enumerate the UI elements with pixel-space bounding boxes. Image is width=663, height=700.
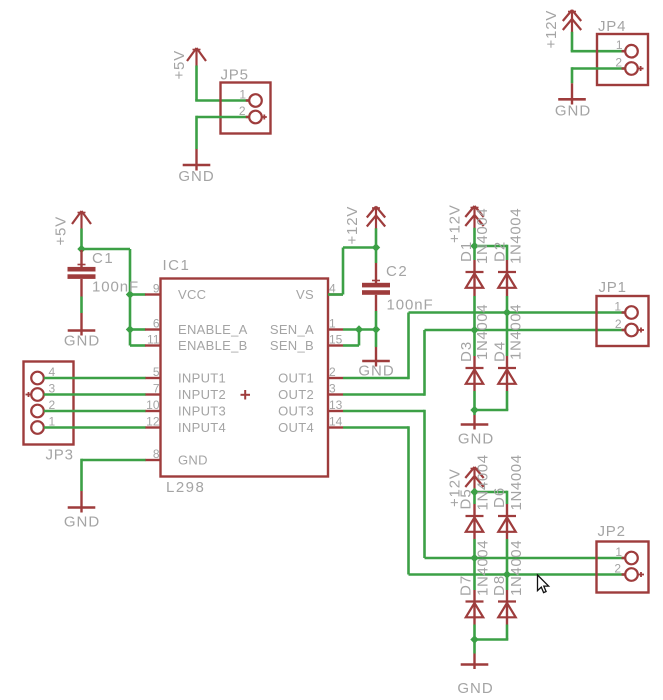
JP4 origin cross — [638, 66, 644, 71]
svg-text:2: 2 — [615, 317, 622, 331]
IC1 pin 2 stub — [328, 377, 343, 379]
diode D6 — [498, 516, 516, 533]
JP3 pin 1 circle — [31, 421, 44, 434]
JP2 pin 1 circle — [625, 552, 638, 565]
IC1 pin 5 stub — [145, 377, 161, 379]
node VCC pin 9 junction — [126, 290, 134, 298]
svg-text:11: 11 — [147, 333, 160, 347]
JP5 pin 1 circle — [249, 94, 262, 107]
wire D2 to OUT1 node — [506, 288, 508, 356]
GND symbol (C1) — [68, 313, 96, 336]
IC1 pin 4 stub — [328, 293, 343, 295]
mouse cursor — [538, 575, 549, 593]
node SEN_A/C2 junction — [372, 325, 380, 333]
wire +12V to node (diodes 1) — [473, 228, 476, 246]
svg-text:12: 12 — [146, 415, 160, 429]
wire D5 to OUT3 node — [473, 532, 475, 590]
svg-text:JP2: JP2 — [598, 523, 626, 540]
svg-text:+12V: +12V — [543, 10, 560, 49]
IC1 pin 15 stub — [328, 344, 343, 346]
svg-text:OUT4: OUT4 — [278, 420, 314, 435]
svg-text:9: 9 — [153, 282, 160, 296]
wire +12V to JP4 pin 1 — [571, 32, 626, 51]
JP3 pin 3 circle — [31, 388, 44, 401]
diode D4 — [498, 368, 516, 385]
IC1 pin 9 stub — [145, 293, 161, 295]
svg-text:JP5: JP5 — [221, 67, 249, 84]
wire OUT4 to JP2 pin 2 — [343, 426, 625, 574]
svg-text:1: 1 — [239, 88, 246, 102]
node VCC junction at C1 — [77, 245, 85, 253]
svg-text:D2: D2 — [492, 241, 509, 262]
svg-text:1N4004: 1N4004 — [474, 304, 491, 360]
wire D1 to OUT2 node — [473, 288, 475, 356]
svg-text:7: 7 — [153, 382, 160, 396]
wire JP3 pin 3 to IC — [44, 393, 146, 396]
wire D1 top lead — [473, 246, 476, 272]
svg-text:1N4004: 1N4004 — [508, 540, 525, 596]
JP2 origin cross — [638, 572, 644, 577]
svg-text:14: 14 — [329, 415, 343, 429]
node GND diodes 1 — [470, 406, 478, 414]
node OUT3 diode junction — [470, 554, 478, 562]
GND symbol (JP4) — [558, 83, 586, 104]
svg-text:INPUT3: INPUT3 — [178, 404, 226, 419]
wire +5V down to node — [80, 229, 83, 250]
IC1 pin 11 stub — [145, 344, 161, 346]
power +12V symbol (JP4 net) — [563, 10, 581, 32]
node ENABLE_A junction — [126, 325, 134, 333]
svg-text:OUT1: OUT1 — [278, 371, 314, 386]
wire SEN_B riser — [343, 330, 359, 346]
JP4 pin 1 circle — [625, 45, 638, 58]
JP5 pin 2 lead nub — [246, 116, 250, 118]
JP3 origin cross — [26, 392, 32, 397]
svg-text:+12V: +12V — [447, 204, 464, 243]
wire node to VCC rail — [82, 249, 131, 346]
GND symbol (JP5) — [183, 149, 211, 171]
svg-text:100nF: 100nF — [387, 297, 434, 314]
wire OUT2 to JP1 pin 2 — [343, 330, 625, 396]
svg-text:3: 3 — [329, 382, 336, 396]
svg-text:GND: GND — [64, 333, 100, 350]
JP2 pin 2 circle — [625, 568, 638, 581]
svg-text:1N4004: 1N4004 — [475, 454, 492, 510]
IC origin cross — [241, 390, 251, 400]
wire D8 top lead — [506, 590, 508, 602]
svg-text:13: 13 — [329, 398, 343, 412]
svg-text:D8: D8 — [491, 575, 508, 596]
node OUT2 diode junction — [470, 326, 478, 334]
op-amp U1 IC1 L298 body — [161, 279, 329, 477]
node SEN_B junction — [355, 325, 363, 333]
connector JP3 — [24, 362, 74, 445]
JP4 pin 2 lead nub — [622, 67, 626, 69]
JP2 pin 1 lead nub — [622, 557, 626, 559]
svg-text:GND: GND — [64, 514, 100, 531]
wire node to D6 column — [475, 491, 508, 494]
svg-text:10: 10 — [146, 398, 160, 412]
svg-text:GND: GND — [457, 680, 493, 697]
wire D3 to GND node — [473, 384, 475, 410]
capacitor C1 — [68, 250, 96, 297]
svg-text:GND: GND — [178, 168, 214, 185]
node +12V diodes 2 — [470, 488, 478, 496]
JP4 pin 2 circle — [625, 62, 638, 75]
JP1 pin 2 circle — [625, 324, 638, 337]
svg-text:JP1: JP1 — [599, 279, 627, 296]
JP1 pin 1 circle — [625, 306, 638, 319]
power +12V symbol (diodes 2) — [465, 467, 483, 489]
svg-text:D4: D4 — [492, 341, 509, 362]
wire D5 top lead — [473, 489, 476, 516]
wire C1 to GND — [80, 297, 83, 314]
node GND diodes 2 — [470, 635, 478, 643]
diode D1 — [466, 272, 484, 289]
wire D6 top lead — [506, 491, 509, 516]
svg-text:ENABLE_B: ENABLE_B — [178, 338, 248, 353]
svg-text:5: 5 — [153, 365, 160, 379]
svg-text:GND: GND — [555, 103, 591, 120]
power +12V symbol (diodes 1) — [465, 206, 483, 228]
power +5V symbol (VCC net) — [72, 211, 91, 229]
svg-text:VCC: VCC — [178, 287, 206, 302]
svg-text:2: 2 — [614, 562, 621, 576]
svg-text:OUT3: OUT3 — [278, 404, 314, 419]
svg-text:1N4004: 1N4004 — [508, 208, 525, 264]
svg-text:INPUT1: INPUT1 — [178, 371, 226, 386]
svg-text:1: 1 — [329, 317, 336, 331]
wire node to D2 column — [475, 245, 508, 248]
IC1 pin 10 stub — [145, 410, 161, 412]
wire OUT1 to JP1 pin 1 — [343, 313, 625, 380]
capacitor C2 — [362, 263, 390, 311]
svg-text:INPUT2: INPUT2 — [178, 387, 226, 402]
IC1 pin 1 stub — [328, 328, 343, 330]
IC1 pin 7 stub — [145, 393, 161, 395]
wire D3 top lead — [473, 356, 475, 368]
svg-text:SEN_B: SEN_B — [270, 338, 314, 353]
IC1 pin 13 stub — [328, 410, 343, 412]
wire D8 to GND node — [475, 617, 509, 639]
JP1 pin 2 lead nub — [622, 329, 626, 331]
wire JP3 pin 4 to IC — [44, 377, 146, 380]
IC1 pin 3 stub — [328, 393, 343, 395]
connector JP2 — [597, 542, 649, 593]
GND symbol (diodes 2) — [461, 640, 489, 670]
connector JP1 — [597, 296, 649, 346]
svg-text:D3: D3 — [458, 341, 475, 362]
JP5 pin 1 lead nub — [246, 99, 250, 101]
wire node to VS pin — [328, 248, 376, 295]
wire to IC pin 11 — [130, 344, 146, 347]
wire D4 top lead — [506, 356, 508, 368]
wire JP3 pin 2 to IC — [44, 410, 146, 413]
wire node to C2 — [375, 248, 378, 264]
svg-text:1N4004: 1N4004 — [474, 208, 491, 264]
svg-text:VS: VS — [296, 287, 314, 302]
node OUT4 diode junction — [503, 570, 511, 578]
svg-text:D6: D6 — [491, 487, 508, 508]
svg-text:D5: D5 — [458, 488, 475, 509]
svg-text:+12V: +12V — [344, 206, 361, 245]
wire OUT3 to JP2 pin 1 — [343, 410, 625, 558]
svg-text:OUT2: OUT2 — [278, 387, 314, 402]
svg-text:GND: GND — [458, 431, 494, 448]
wire C2 to SEN node — [375, 311, 378, 347]
JP3 pin 2 circle — [31, 405, 44, 418]
svg-text:1N4004: 1N4004 — [508, 454, 525, 510]
IC1 pin 8 stub — [145, 459, 161, 461]
svg-text:D7: D7 — [458, 575, 475, 596]
node +12V diodes 1 — [470, 242, 478, 250]
svg-text:JP4: JP4 — [598, 18, 626, 35]
svg-text:JP3: JP3 — [46, 447, 74, 464]
power +12V symbol (VS net) — [367, 207, 385, 229]
diode D5 — [466, 516, 484, 533]
svg-text:1: 1 — [615, 545, 622, 559]
svg-text:L298: L298 — [166, 479, 205, 496]
wire D7 top lead — [473, 590, 475, 602]
svg-text:GND: GND — [178, 453, 208, 468]
diode D7 — [466, 601, 484, 618]
svg-text:100nF: 100nF — [92, 279, 139, 296]
IC1 pin 6 stub — [145, 328, 161, 330]
diode D8 — [498, 601, 516, 618]
GND symbol (IC1) — [68, 491, 96, 513]
wire SEN_A to node — [343, 328, 376, 331]
svg-text:SEN_A: SEN_A — [270, 322, 314, 337]
GND symbol (C2) — [362, 347, 390, 367]
svg-text:INPUT4: INPUT4 — [178, 420, 226, 435]
svg-text:6: 6 — [153, 317, 160, 331]
svg-text:+5V: +5V — [171, 50, 188, 80]
wire D6 to OUT4 node — [506, 532, 508, 590]
IC1 pin 14 stub — [328, 426, 343, 428]
wire D7 to GND node — [473, 617, 475, 639]
svg-text:8: 8 — [153, 447, 160, 461]
node OUT1 diode junction — [503, 308, 511, 316]
wire +12V to node — [375, 228, 378, 248]
IC1 pin 12 stub — [145, 426, 161, 428]
svg-text:1N4004: 1N4004 — [508, 304, 525, 360]
GND symbol (diodes 1) — [461, 410, 489, 430]
svg-text:+5V: +5V — [53, 216, 70, 246]
wire to IC pin 9 — [130, 293, 146, 296]
svg-text:1: 1 — [614, 300, 621, 314]
svg-text:C2: C2 — [386, 263, 408, 280]
JP2 pin 2 lead nub — [622, 573, 626, 575]
diode D3 — [466, 368, 484, 385]
svg-text:IC1: IC1 — [163, 257, 191, 274]
svg-text:15: 15 — [329, 333, 343, 347]
diode D2 — [498, 272, 516, 289]
JP1 pin 1 lead nub — [622, 311, 626, 313]
svg-text:1N4004: 1N4004 — [475, 540, 492, 596]
wire JP4 pin 2 to GND — [572, 67, 625, 83]
JP5 origin cross — [262, 115, 267, 120]
wire to IC pin 6 — [130, 328, 146, 331]
power +5V symbol (JP5 net) — [187, 48, 206, 66]
JP3 pin 4 circle — [31, 372, 44, 385]
svg-text:ENABLE_A: ENABLE_A — [178, 322, 248, 337]
wire +5V to JP5 pin 1 — [195, 66, 249, 101]
wire JP5 pin 2 to GND — [197, 116, 250, 149]
svg-text:D1: D1 — [458, 241, 475, 262]
connector JP4 — [597, 34, 648, 85]
JP5 pin 2 circle — [249, 111, 262, 124]
JP4 pin 1 lead nub — [622, 50, 626, 52]
wire IC GND pin to GND — [82, 459, 146, 491]
node +12V junction at C2 — [372, 243, 380, 251]
svg-text:2: 2 — [329, 365, 336, 379]
wire JP3 pin 1 to IC — [44, 426, 146, 429]
wire D2 top lead — [506, 245, 509, 272]
wire D4 to GND node — [475, 384, 509, 410]
connector JP5 — [221, 83, 271, 134]
svg-text:C1: C1 — [92, 250, 114, 267]
JP1 origin cross — [638, 328, 644, 333]
